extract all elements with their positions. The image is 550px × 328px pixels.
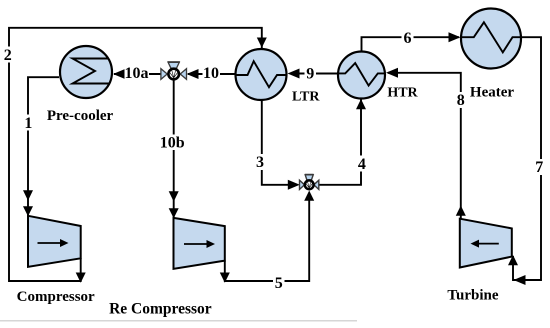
re-compressor (174, 218, 225, 269)
wire stream 7 (heater right, down right side, to turbine) (513, 37, 541, 280)
arrow stream 5 down at re-compressor outlet (220, 273, 230, 283)
wire stream 3 (LTR bottom to valve V2) (262, 100, 297, 185)
arrow stream 4 into HTR (356, 99, 366, 109)
svg-text:1: 1 (24, 115, 32, 132)
pre-cooler heat exchanger (60, 46, 112, 98)
node label 9 (305, 65, 317, 82)
svg-text:10: 10 (203, 65, 219, 82)
arrow stream 5 up into valve V2 (304, 191, 314, 201)
arrow stream 10b mid (169, 191, 179, 201)
node label 4 (356, 156, 368, 173)
svg-text:10b: 10b (160, 135, 185, 152)
svg-text:Pre-cooler: Pre-cooler (47, 108, 114, 124)
wire stream 10 (LTR to valve V1) (188, 73, 236, 75)
wire stream 9 (HTR left to LTR right) (292, 73, 338, 75)
node label 7 (534, 159, 546, 176)
heater heat exchanger (461, 9, 521, 69)
svg-text:5: 5 (275, 275, 283, 292)
arrow stream 8 into HTR (386, 68, 398, 78)
svg-text:6: 6 (404, 30, 412, 47)
arrow stream 1 at compressor (23, 206, 33, 216)
node label 3 (255, 154, 267, 171)
wire stream 2 (compressor out, up left side, top, down to LTR) (9, 28, 262, 281)
wire stream 1 (pre-cooler to compressor) (28, 77, 59, 215)
svg-text:Turbine: Turbine (447, 288, 498, 304)
arrow stream 2 at compressor outlet (76, 273, 86, 283)
turbine (460, 219, 512, 268)
svg-text:7: 7 (535, 159, 543, 176)
arrow stream 7 left at bottom (514, 275, 526, 285)
svg-text:4: 4 (358, 156, 366, 173)
arrow stream 10b at re-compressor (169, 208, 179, 218)
svg-text:10a: 10a (125, 65, 149, 82)
node label 8 (455, 92, 467, 109)
arrow stream 10 into valve V1 (187, 69, 199, 79)
LTR heat exchanger (236, 49, 287, 100)
svg-text:Compressor: Compressor (17, 289, 95, 305)
node label 6 (402, 30, 414, 47)
svg-text:Re Compressor: Re Compressor (109, 300, 212, 317)
arrow stream 7 up into turbine (508, 255, 518, 265)
svg-text:3: 3 (256, 154, 264, 171)
node label 10a (125, 65, 150, 82)
wire stream 5 (re-compressor out to valve V2) (225, 195, 309, 281)
node label 1 (23, 115, 34, 133)
wire stream 10a (valve V1 to pre-cooler) (114, 73, 161, 75)
valve V1 (161, 62, 187, 79)
wire stream 8 (turbine top to HTR right) (388, 73, 461, 219)
arrow stream 2 into LTR top (257, 38, 267, 48)
node label 5 (273, 275, 285, 293)
node label 2 (3, 47, 14, 64)
faint page rule at bottom (0, 320, 357, 322)
wire stream 6 (HTR top to heater) (362, 37, 460, 52)
svg-text:LTR: LTR (292, 90, 320, 105)
svg-text:9: 9 (306, 65, 314, 82)
compressor (28, 216, 81, 267)
arrow stream 3 into valve V2 (288, 180, 300, 190)
valve V2 (300, 175, 319, 190)
arrow stream 10a into pre-cooler (113, 69, 125, 79)
svg-text:2: 2 (4, 47, 12, 64)
HTR heat exchanger (338, 52, 385, 99)
svg-text:Heater: Heater (470, 85, 514, 101)
wire stream 4 (valve V2 to HTR bottom) (319, 99, 361, 185)
arrow stream 9 into LTR (288, 69, 300, 79)
wire stream 10b (valve V1 down to re-compressor) (173, 80, 175, 217)
node label 10b (159, 135, 186, 152)
arrow stream 6 into heater (449, 32, 461, 42)
arrow stream 8 up mid (456, 206, 466, 216)
svg-text:HTR: HTR (387, 86, 418, 101)
svg-text:8: 8 (457, 92, 465, 109)
node label 10 (203, 65, 221, 82)
arrow stream 1 mid (23, 190, 33, 200)
